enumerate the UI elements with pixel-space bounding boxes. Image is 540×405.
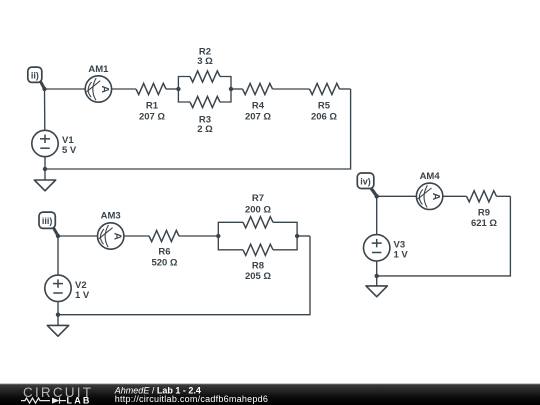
svg-text:ii): ii) [31, 71, 39, 81]
svg-text:http://circuitlab.com/cadfb6ma: http://circuitlab.com/cadfb6mahepd6 [115, 394, 268, 404]
svg-text:205 Ω: 205 Ω [245, 271, 271, 282]
svg-text:R6: R6 [158, 246, 170, 257]
svg-text:R1: R1 [146, 101, 159, 112]
svg-text:206 Ω: 206 Ω [311, 111, 337, 122]
svg-text:LAB: LAB [67, 396, 92, 405]
svg-text:R5: R5 [318, 101, 331, 112]
svg-text:AM1: AM1 [88, 64, 109, 75]
svg-text:200 Ω: 200 Ω [245, 204, 271, 215]
svg-text:1 V: 1 V [394, 249, 409, 260]
svg-text:520 Ω: 520 Ω [151, 257, 177, 268]
svg-text:R9: R9 [478, 207, 490, 218]
svg-text:2 Ω: 2 Ω [197, 124, 213, 135]
svg-text:AM3: AM3 [101, 211, 121, 222]
svg-text:AM4: AM4 [420, 171, 441, 182]
svg-text:3 Ω: 3 Ω [197, 56, 213, 67]
svg-text:iv): iv) [360, 177, 371, 187]
svg-text:R7: R7 [252, 193, 264, 204]
svg-text:207 Ω: 207 Ω [139, 111, 165, 122]
svg-text:207 Ω: 207 Ω [245, 111, 271, 122]
svg-text:621 Ω: 621 Ω [471, 218, 497, 229]
svg-text:5 V: 5 V [62, 145, 77, 156]
svg-text:1 V: 1 V [75, 290, 90, 301]
svg-text:iii): iii) [42, 216, 53, 226]
svg-text:R4: R4 [252, 101, 265, 112]
svg-text:R8: R8 [252, 260, 264, 271]
